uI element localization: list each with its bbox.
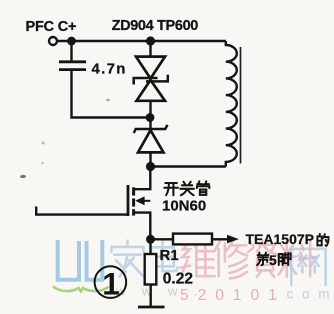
watermark book logo	[58, 240, 103, 280]
diode D2 cathode bar (zener bends)	[134, 125, 168, 133]
transistor Q 10N60 gate bar	[127, 185, 130, 216]
zener ZD904 (bidirectional, lower triangle)	[137, 80, 166, 101]
zener ZD904 (bidirectional, upper triangle)	[136, 57, 165, 79]
wire: zener to mid node	[149, 101, 151, 118]
svg-text:0.22: 0.22	[163, 271, 193, 288]
watermark char 网	[291, 249, 325, 285]
transformer core line	[240, 47, 242, 164]
svg-text:5: 5	[269, 252, 277, 268]
label 脚 (pin)	[279, 253, 291, 265]
watermark char 家	[112, 241, 144, 277]
label 的 (of)	[317, 234, 328, 246]
wire: source node to series resistor	[151, 238, 174, 240]
terminal PFC C+ (open circle)	[49, 37, 57, 45]
transistor Q body arrow head	[135, 196, 144, 205]
node: junction dot at source/current sense	[146, 235, 155, 244]
watermark char 电	[151, 241, 178, 271]
scan speck 2	[42, 142, 45, 145]
wire: top node down to zener ZD904	[149, 41, 151, 57]
resistor (series to pin5) box	[173, 234, 212, 245]
arrow to TEA1507P pin 5	[227, 235, 239, 244]
watermark char 维	[181, 241, 215, 276]
transistor Q source lead	[134, 213, 150, 239]
watermark char 资	[248, 241, 281, 277]
wire: down from PFC node to capacitor	[70, 41, 72, 61]
wire: gate lead going left	[36, 207, 127, 215]
svg-text:4.7n: 4.7n	[92, 60, 127, 77]
wire: capacitor bottom to zener mid node	[72, 70, 148, 118]
svg-text:520101: 520101	[180, 287, 286, 304]
scan speck 4	[106, 99, 110, 101]
wire: terminal to top node	[57, 40, 226, 42]
svg-text:TEA1507P: TEA1507P	[246, 231, 314, 247]
node: junction dot at zener top	[146, 36, 155, 45]
wire: mid node to diode 2	[149, 118, 151, 130]
label 开关管	[164, 181, 209, 195]
ground bar	[138, 306, 165, 309]
svg-text:. c o m: . c o m	[274, 287, 332, 302]
wire: node down to R1	[149, 239, 151, 254]
node: junction dot at drain node	[146, 162, 155, 171]
watermark char 修	[215, 241, 247, 278]
resistor R1 box	[145, 254, 157, 285]
scan speck 1	[20, 175, 26, 178]
transistor Q channel dashes	[132, 187, 135, 215]
svg-text:1: 1	[102, 265, 120, 301]
transistor Q drain lead	[134, 169, 150, 189]
svg-text:R1: R1	[160, 247, 179, 264]
zener ZD904 middle Z-bar left	[134, 78, 158, 85]
zener ZD904 middle Z-bar right	[146, 75, 168, 82]
transistor Q body arrow wire	[137, 200, 150, 202]
node: junction dot at PFC branch	[67, 37, 76, 46]
wire: R1 to ground	[149, 285, 151, 307]
scan speck 3	[41, 162, 44, 165]
svg-text:ZD904 TP600: ZD904 TP600	[112, 18, 199, 34]
wire: diode 2 to bottom node	[149, 152, 151, 166]
wire: drain node to winding bottom	[151, 165, 226, 167]
wire: resistor to arrow	[212, 238, 228, 240]
svg-text:PFC C+: PFC C+	[26, 19, 77, 35]
diode D2 triangle	[138, 130, 164, 152]
watermark green wave under book	[53, 287, 109, 292]
watermark char 料	[279, 241, 316, 276]
transformer winding TP600	[226, 41, 237, 167]
callout circled 1	[95, 266, 127, 298]
node: junction dot between zeners	[146, 113, 155, 122]
svg-text:10N60: 10N60	[162, 197, 206, 214]
label 第	[257, 253, 268, 266]
capacitor C 4.7n	[59, 62, 86, 70]
